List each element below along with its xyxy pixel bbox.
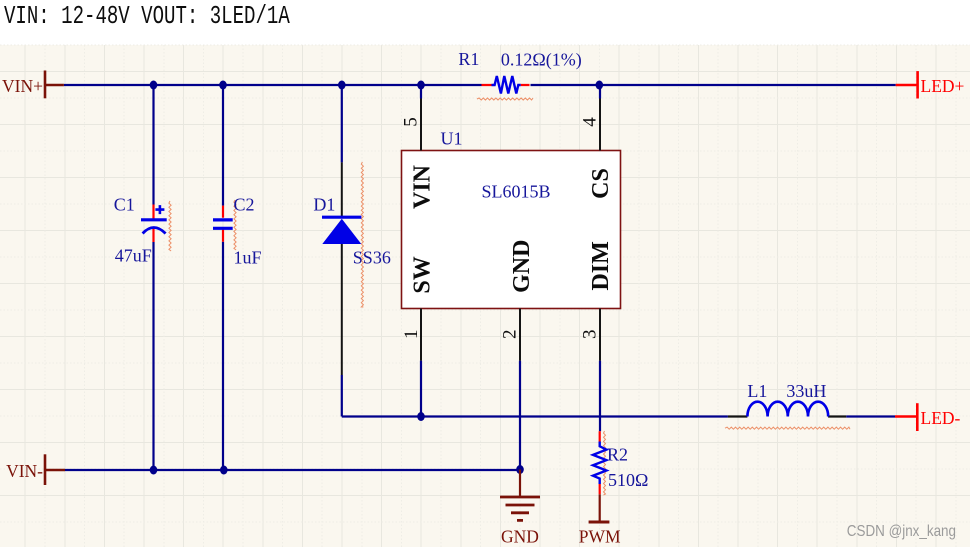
svg-text:VIN+: VIN+: [2, 76, 43, 96]
svg-text:GND: GND: [509, 240, 535, 293]
svg-text:D1: D1: [313, 195, 335, 215]
svg-text:SL6015B: SL6015B: [482, 182, 551, 202]
svg-text:C1: C1: [114, 195, 135, 215]
svg-text:510Ω: 510Ω: [608, 470, 648, 490]
svg-text:4: 4: [579, 117, 600, 127]
svg-text:R1: R1: [458, 49, 479, 69]
svg-text:PWM: PWM: [579, 527, 621, 547]
svg-text:C2: C2: [234, 195, 255, 215]
svg-text:SW: SW: [409, 256, 435, 293]
svg-text:3: 3: [579, 329, 600, 339]
svg-text:1uF: 1uF: [234, 248, 262, 268]
svg-text:DIM: DIM: [588, 241, 614, 290]
svg-text:47uF: 47uF: [115, 246, 152, 266]
svg-text:R2: R2: [607, 445, 628, 465]
svg-text:2: 2: [499, 329, 520, 339]
svg-text:0.12Ω(1%): 0.12Ω(1%): [501, 49, 582, 70]
svg-text:VIN: 12-48V VOUT: 3LED/1A: VIN: 12-48V VOUT: 3LED/1A: [4, 2, 290, 32]
svg-text:LED+: LED+: [921, 76, 965, 96]
svg-text:LED-: LED-: [921, 408, 961, 428]
svg-text:GND: GND: [501, 527, 539, 547]
svg-text:1: 1: [401, 329, 422, 339]
svg-text:VIN-: VIN-: [6, 461, 43, 481]
svg-text:5: 5: [401, 117, 422, 127]
svg-text:U1: U1: [441, 129, 463, 149]
svg-text:L1: L1: [747, 381, 767, 401]
svg-text:CSDN @jnx_kang: CSDN @jnx_kang: [847, 523, 956, 540]
svg-text:VIN: VIN: [410, 164, 436, 209]
svg-text:SS36: SS36: [353, 248, 391, 268]
svg-text:33uH: 33uH: [786, 381, 826, 401]
svg-text:CS: CS: [588, 168, 614, 199]
